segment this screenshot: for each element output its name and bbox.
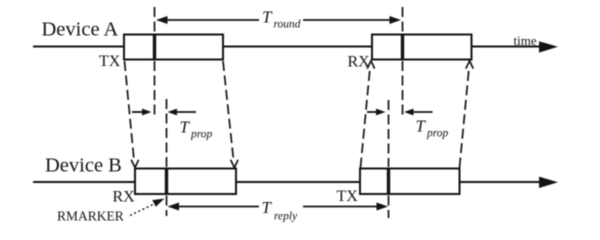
svg-text:TX: TX (337, 188, 359, 205)
svg-text:T: T (262, 8, 273, 27)
svg-text:time: time (514, 33, 537, 48)
svg-text:T: T (416, 117, 427, 136)
svg-text:T: T (262, 198, 273, 217)
svg-text:RX: RX (113, 189, 136, 206)
svg-text:round: round (274, 19, 301, 31)
svg-text:RMARKER: RMARKER (57, 209, 124, 224)
svg-text:prop: prop (426, 128, 449, 140)
svg-text:prop: prop (190, 129, 213, 141)
svg-text:T: T (180, 117, 191, 136)
svg-text:TX: TX (99, 53, 121, 70)
svg-text:reply: reply (274, 211, 298, 223)
svg-text:Device B: Device B (45, 155, 122, 177)
svg-text:RX: RX (348, 54, 371, 71)
svg-text:Device A: Device A (42, 19, 119, 41)
